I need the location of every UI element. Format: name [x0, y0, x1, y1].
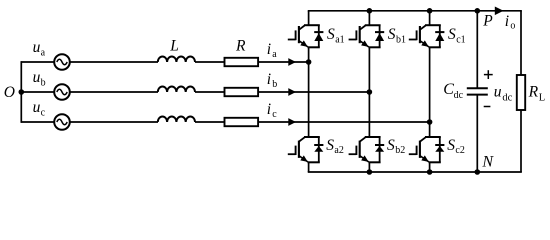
emitter bar	[368, 161, 380, 163]
svg-text:i: i	[505, 13, 509, 30]
collector stub	[308, 11, 310, 25]
svg-text:S: S	[448, 26, 456, 43]
label i_b	[267, 71, 278, 90]
body bar	[298, 141, 300, 158]
svg-text:c: c	[41, 107, 46, 118]
collector bar	[425, 24, 441, 26]
node O junction dot	[19, 89, 25, 95]
current arrow i_a	[288, 58, 296, 66]
svg-text:a: a	[272, 49, 277, 60]
svg-text:dc: dc	[454, 90, 464, 101]
emitter diagonal	[299, 41, 308, 47]
inductor L phase b	[158, 87, 195, 93]
current arrow i_b	[288, 88, 296, 96]
emitter arrowhead	[300, 40, 308, 47]
output current arrow i_o	[495, 7, 504, 16]
label i_a	[267, 41, 278, 60]
label i_o	[505, 13, 516, 32]
collector stub	[429, 11, 431, 25]
load resistor R_L	[517, 75, 525, 110]
IGBT S_b1 with antiparallel diode	[349, 11, 385, 48]
inductor L phase c	[158, 117, 195, 123]
ac source u_b	[54, 84, 70, 100]
svg-text:P: P	[482, 13, 493, 30]
gate bar	[416, 146, 418, 155]
body bar	[359, 26, 361, 43]
gate bar	[355, 30, 357, 40]
wire: capacitor branch upper	[476, 11, 478, 88]
emitter diagonal	[360, 41, 369, 47]
collector diagonal	[299, 137, 305, 141]
label S_b2	[387, 137, 405, 156]
collector stub	[368, 11, 370, 25]
label S_a2	[326, 137, 344, 156]
wire: phase c inductor to resistor	[195, 121, 225, 123]
IGBT S_a1 with antiparallel diode	[288, 11, 324, 48]
svg-text:u: u	[33, 39, 41, 56]
IGBT S_b2 with antiparallel diode	[349, 137, 385, 172]
collector bar	[304, 24, 320, 26]
junction dot top rail leg b	[367, 8, 373, 14]
svg-text:a1: a1	[335, 34, 344, 45]
wire: capacitor branch lower	[476, 95, 478, 172]
wire: positive rail (top)	[308, 10, 522, 12]
antiparallel diode	[318, 137, 320, 162]
collector bar	[425, 136, 441, 138]
collector bar	[304, 136, 320, 138]
node N junction dot	[475, 169, 481, 175]
wire: leg b midpoint vertical	[368, 47, 370, 137]
emitter stub	[308, 162, 310, 172]
junction dot phase a - leg a	[306, 59, 312, 65]
wire: phase b from bus to inductor	[21, 91, 158, 93]
gate bar	[295, 30, 297, 40]
gate lead	[409, 39, 417, 41]
antiparallel diode	[379, 137, 381, 162]
body bar	[359, 141, 361, 158]
gate lead	[288, 39, 296, 41]
wire: leg a midpoint vertical	[308, 47, 310, 137]
resistor R phase c	[225, 118, 259, 126]
junction dot phase c - leg c	[427, 119, 433, 125]
emitter stub	[429, 162, 431, 172]
antiparallel diode	[318, 25, 320, 47]
wire: negative rail (bottom)	[308, 171, 522, 173]
resistor R phase a	[225, 58, 259, 66]
svg-text:i: i	[267, 101, 271, 118]
svg-text:N: N	[481, 153, 494, 170]
junction dot bottom rail leg b	[367, 169, 373, 175]
label u_c	[33, 99, 46, 118]
label S_c1	[448, 26, 466, 45]
gate lead	[409, 153, 417, 155]
plus sign (u_dc polarity)	[484, 70, 493, 79]
svg-text:b2: b2	[395, 145, 405, 156]
collector bar	[365, 136, 381, 138]
current arrow i_c	[288, 118, 296, 126]
junction dot phase b - leg b	[367, 89, 373, 95]
emitter arrowhead	[421, 155, 429, 162]
junction dot top rail leg c	[427, 8, 433, 14]
collector diagonal	[360, 26, 366, 30]
emitter arrowhead	[361, 40, 369, 47]
junction dot bottom rail leg c	[427, 169, 433, 175]
emitter diagonal	[299, 156, 308, 162]
svg-text:a2: a2	[334, 145, 343, 156]
svg-text:R: R	[235, 38, 246, 55]
wire: leg c midpoint vertical	[429, 47, 431, 137]
antiparallel diode	[379, 25, 381, 47]
wire: load branch upper	[520, 11, 522, 75]
wire: phase a from bus to inductor	[21, 61, 158, 63]
wire: phase c from bus to inductor	[21, 121, 158, 123]
body bar	[419, 141, 421, 158]
svg-text:b: b	[41, 77, 46, 88]
wire: phase b inductor to resistor	[195, 91, 225, 93]
svg-text:L: L	[169, 38, 179, 55]
collector diagonal	[420, 137, 426, 141]
IGBT S_a2 with antiparallel diode	[288, 137, 324, 172]
emitter arrowhead	[300, 155, 308, 162]
svg-text:u: u	[33, 99, 41, 116]
gate lead	[288, 153, 296, 155]
svg-text:R: R	[528, 83, 539, 100]
resistor R phase b	[225, 88, 259, 96]
gate bar	[295, 146, 297, 155]
emitter stub	[368, 162, 370, 172]
antiparallel diode	[439, 25, 441, 47]
emitter bar	[368, 46, 380, 48]
label S_a1	[327, 26, 345, 45]
wire: phase a resistor to bridge leg	[258, 61, 309, 63]
svg-text:S: S	[387, 137, 395, 154]
svg-text:C: C	[443, 81, 454, 98]
emitter bar	[429, 161, 441, 163]
svg-text:dc: dc	[502, 92, 512, 103]
body bar	[298, 26, 300, 43]
wire: phase a inductor to resistor	[195, 61, 225, 63]
ac source u_a	[54, 54, 70, 70]
label i_c	[267, 101, 278, 120]
svg-text:S: S	[326, 137, 334, 154]
capacitor C_dc plates	[467, 88, 488, 94]
svg-text:b: b	[272, 79, 277, 90]
wire: left bus (node O vertical)	[20, 61, 22, 123]
label C_dc	[443, 81, 463, 101]
wire: phase c resistor to bridge leg	[258, 121, 430, 123]
label R_L	[528, 83, 546, 103]
label u_dc	[494, 83, 513, 103]
svg-text:a: a	[41, 47, 46, 58]
collector diagonal	[299, 26, 305, 30]
emitter bar	[429, 46, 441, 48]
emitter arrowhead	[421, 40, 429, 47]
emitter diagonal	[420, 41, 429, 47]
label u_b	[33, 69, 46, 88]
svg-text:S: S	[327, 26, 335, 43]
ac source u_c	[54, 114, 70, 130]
IGBT S_c2 with antiparallel diode	[409, 137, 445, 172]
label S_c2	[447, 137, 465, 156]
body bar	[419, 26, 421, 43]
label u_a	[33, 39, 46, 58]
label S_b1	[388, 26, 406, 45]
svg-text:c2: c2	[455, 145, 464, 156]
svg-text:S: S	[447, 137, 455, 154]
collector diagonal	[420, 26, 426, 30]
gate lead	[349, 153, 357, 155]
gate bar	[355, 146, 357, 155]
emitter arrowhead	[361, 155, 369, 162]
svg-text:S: S	[388, 26, 396, 43]
emitter diagonal	[420, 156, 429, 162]
svg-text:i: i	[267, 41, 271, 58]
IGBT S_c1 with antiparallel diode	[409, 11, 445, 48]
gate lead	[349, 39, 357, 41]
svg-text:u: u	[33, 69, 41, 86]
minus sign (u_dc polarity)	[484, 106, 491, 108]
wire: load branch lower	[520, 110, 522, 172]
emitter bar	[308, 46, 320, 48]
gate bar	[416, 30, 418, 40]
inductor L phase a	[158, 56, 195, 62]
svg-text:b1: b1	[396, 34, 406, 45]
svg-text:i: i	[267, 71, 271, 88]
svg-text:o: o	[510, 20, 515, 31]
svg-text:c1: c1	[456, 34, 465, 45]
svg-text:c: c	[272, 109, 277, 120]
collector diagonal	[360, 137, 366, 141]
collector bar	[365, 24, 381, 26]
emitter bar	[308, 161, 320, 163]
emitter diagonal	[360, 156, 369, 162]
svg-text:O: O	[4, 84, 15, 101]
node P junction dot	[475, 8, 481, 14]
svg-text:L: L	[539, 93, 545, 104]
wire: phase b resistor to bridge leg	[258, 91, 369, 93]
svg-text:u: u	[494, 83, 502, 100]
antiparallel diode	[439, 137, 441, 162]
